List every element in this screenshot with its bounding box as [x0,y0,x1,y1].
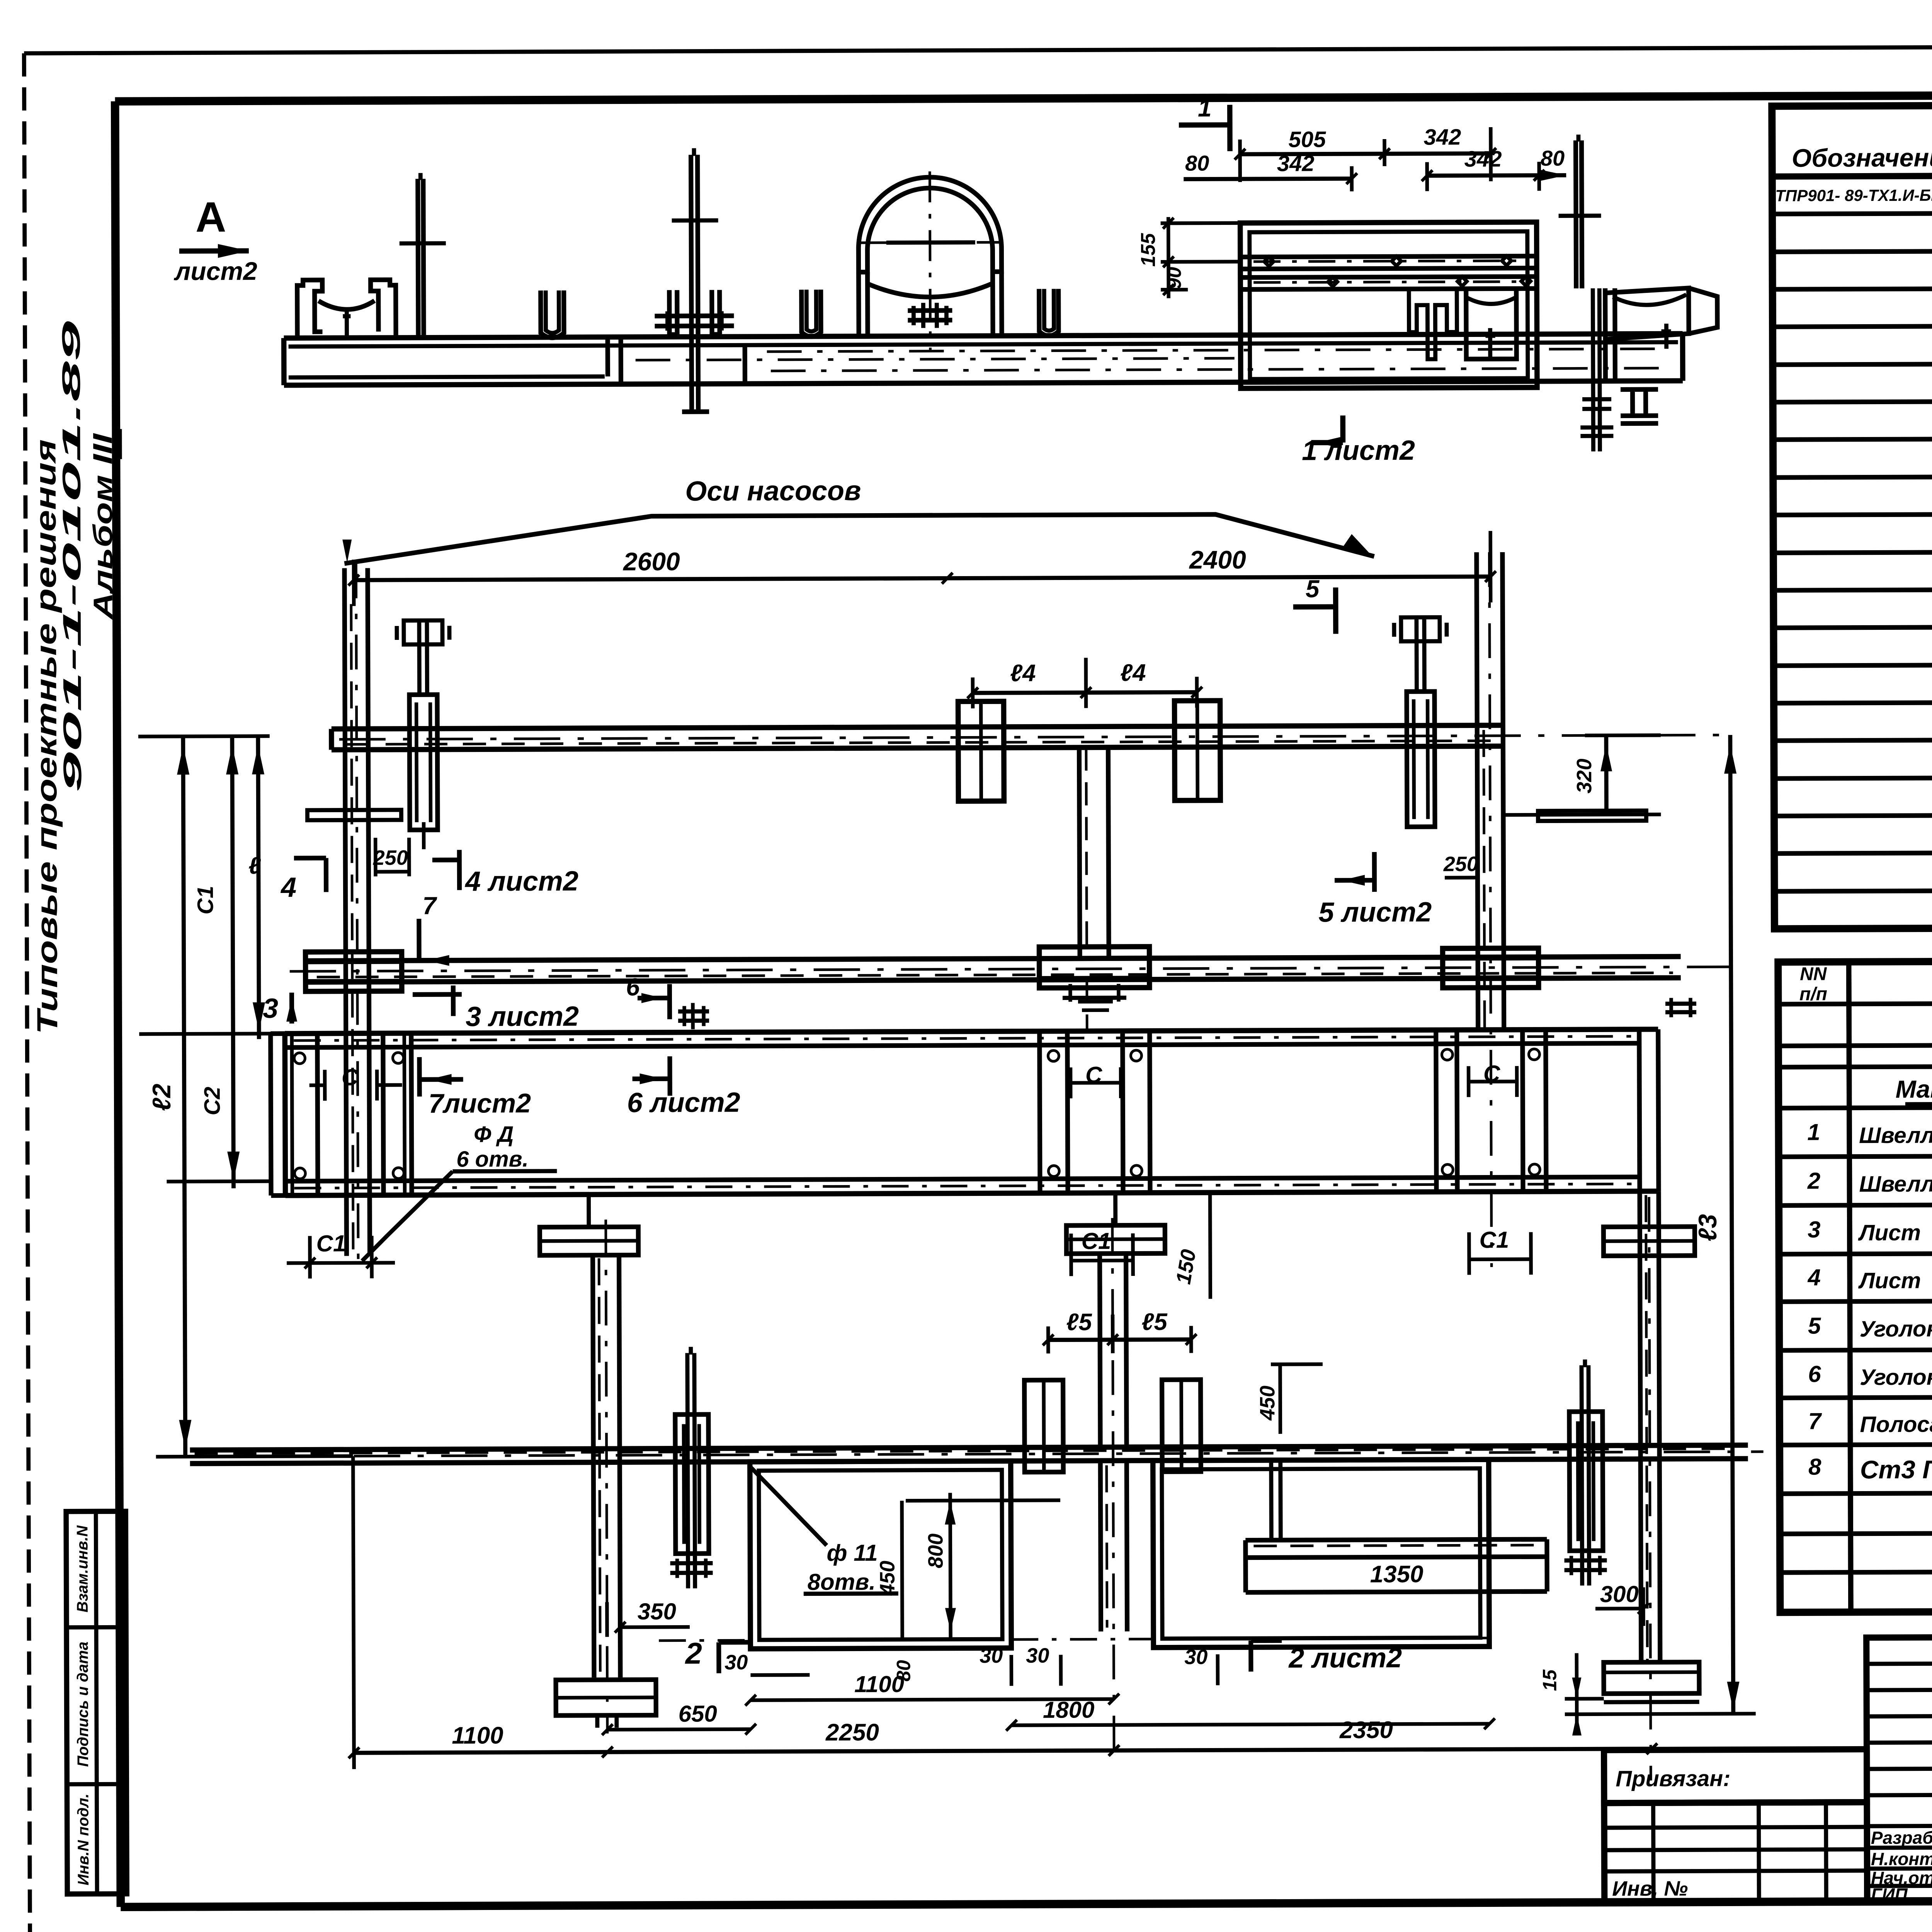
svg-text:4: 4 [280,872,296,903]
svg-text:8: 8 [1808,1454,1821,1480]
hanger blocks on bottom beam [1024,1380,1063,1472]
label 6 list2 [667,1056,672,1096]
svg-text:3 лист2: 3 лист2 [466,1001,579,1032]
right bolt hanger [1406,692,1435,827]
dim 90 155 [1161,221,1240,225]
svg-text:7: 7 [422,892,437,920]
svg-text:15: 15 [1539,1669,1560,1691]
right frame rectangle [1153,1459,1490,1648]
dim 2600/2400 [354,577,1491,580]
svg-text:1: 1 [1198,94,1212,122]
small bolt right outside [1665,1002,1696,1006]
right rod [1576,140,1576,288]
pipe clamp arch [858,177,1002,272]
beam dashed centerlines [636,358,1235,360]
dim 450 right rot [1278,1364,1282,1434]
right end box [1639,1029,1639,1191]
svg-text:Подпись и дата: Подпись и дата [74,1641,92,1767]
svg-text:Ст3 ГОСТ 380-71: Ст3 ГОСТ 380-71 [1860,1454,1932,1484]
svg-text:250: 250 [1443,852,1478,876]
svg-text:342: 342 [1464,146,1502,172]
svg-text:Уголок: Уголок [1860,1364,1932,1390]
bolt hardware right [1593,288,1593,451]
svg-text:С2: С2 [200,1087,225,1115]
svg-text:450: 450 [876,1561,899,1596]
svg-text:7: 7 [1808,1408,1822,1434]
right frame box (node 1) [1240,222,1537,388]
label 4 + 3 [324,858,328,892]
svg-text:2600: 2600 [622,547,680,576]
stud bolt 2 with clamp [691,155,692,384]
svg-text:2350: 2350 [1339,1717,1393,1743]
svg-text:А: А [196,193,226,241]
pump dimension table [1772,103,1932,929]
dim l5 l5 [1048,1340,1191,1340]
svg-text:342: 342 [1277,151,1315,176]
svg-text:лист2: лист2 [173,257,257,286]
svg-text:Инв. №: Инв. № [1612,1877,1688,1901]
svg-text:3: 3 [263,993,278,1024]
clamp base bolts [801,290,821,337]
I-beam below [1621,379,1658,383]
left post [344,568,347,1256]
svg-text:ℓ4: ℓ4 [1010,660,1036,687]
svg-text:6: 6 [626,973,640,1001]
label 6 mark [638,996,670,1000]
svg-text:Уголок: Уголок [1860,1316,1932,1342]
center stem [1100,1253,1100,1447]
svg-text:90: 90 [1163,267,1185,289]
svg-text:С1: С1 [1081,1228,1111,1254]
svg-text:Лист: Лист [1858,1220,1921,1246]
svg-text:30: 30 [724,1651,748,1674]
label 4 list2 [432,857,459,862]
svg-text:ℓ2: ℓ2 [147,1083,176,1111]
svg-text:ℓ3: ℓ3 [1693,1214,1722,1242]
svg-text:ф 11: ф 11 [827,1540,878,1566]
svg-text:80: 80 [1185,151,1209,175]
svg-text:Оси насосов: Оси насосов [685,475,861,507]
elevation main beam [284,334,1683,338]
U clamp 1 [541,291,564,338]
svg-text:ℓ5: ℓ5 [1141,1309,1168,1335]
l3 dim right [1730,735,1733,1712]
right stem [1640,1191,1641,1662]
svg-text:ТПР901- 89-ТХ1.И-БН.100.00: ТПР901- 89-ТХ1.И-БН.100.00 [1775,186,1932,205]
margin stamp table [66,1511,127,1894]
svg-text:1 лист2: 1 лист2 [1302,435,1415,466]
svg-text:155: 155 [1137,233,1160,267]
dim 1100 (frame) [751,1699,1114,1700]
label 3 list2 [413,992,462,997]
svg-text:Ф Д: Ф Д [474,1122,514,1147]
svg-text:7лист2: 7лист2 [429,1088,531,1119]
dim 1800 [1012,1724,1490,1725]
dim 80/342 row2 [1184,179,1352,179]
plan left dim lines [183,736,185,1457]
right bolt assembly bottom [1582,1365,1582,1585]
dim l4 l4 [973,692,1197,693]
svg-text:С1: С1 [1479,1227,1509,1253]
svg-text:901-1-0101.89: 901-1-0101.89 [56,321,87,793]
left pipe saddle [297,280,322,338]
dim 250 right [1445,876,1478,879]
chain dims 1100/2250/2350 [354,1749,1652,1753]
title block [1604,1749,1867,1803]
frame foot pads [540,1227,638,1255]
section 1 mark top [1179,122,1230,128]
svg-text:6 отв.: 6 отв. [456,1146,529,1172]
svg-text:С1: С1 [316,1230,346,1256]
svg-text:Обозначение: Обозначение [1792,143,1932,172]
left bolt assembly bottom [687,1353,688,1588]
left bolt hanger [409,695,437,830]
svg-text:Привязан:: Привязан: [1616,1766,1730,1791]
materials table [1778,959,1932,1612]
svg-text:Полоса: Полоса [1860,1412,1932,1437]
svg-text:ℓ: ℓ [248,852,261,879]
center drop column [1079,747,1080,958]
svg-text:30: 30 [980,1644,1003,1667]
svg-text:2250: 2250 [825,1719,879,1746]
left end box [285,1034,285,1196]
main frame [115,94,1932,102]
lower frame rails [285,1029,1658,1034]
channel 1350 [1245,1539,1547,1540]
svg-text:250: 250 [373,846,408,869]
center box [1039,1031,1040,1193]
svg-text:8отв.: 8отв. [808,1569,876,1595]
svg-text:2400: 2400 [1189,545,1246,574]
svg-text:350: 350 [638,1599,676,1624]
svg-text:Материалы: Материалы [1895,1075,1932,1103]
label 7 mark [417,919,421,961]
svg-text:Инв.N подл.: Инв.N подл. [75,1794,92,1886]
center nut cluster [1063,986,1126,990]
svg-text:1100: 1100 [854,1671,904,1697]
svg-text:п/п: п/п [1799,984,1827,1004]
svg-text:5: 5 [1808,1313,1821,1338]
svg-text:Швеллер: Швеллер [1859,1171,1932,1197]
label 5 list2 [1372,852,1377,892]
svg-text:Н.контр.: Н.контр. [1871,1849,1932,1869]
svg-text:1350: 1350 [1370,1561,1423,1588]
svg-text:С1: С1 [193,886,218,914]
outer sheet border [24,45,1932,53]
svg-text:4: 4 [1807,1264,1821,1290]
dim 450 800 rot [902,1501,902,1640]
right post [1477,725,1478,1030]
svg-text:320: 320 [1573,759,1596,793]
left stem [593,1255,594,1677]
second beam [306,957,1681,961]
svg-text:4 лист2: 4 лист2 [464,866,578,897]
svg-text:2 лист2: 2 лист2 [1288,1643,1402,1674]
label 2 list2 [1248,1641,1253,1672]
dim 505/342 [1240,153,1491,154]
dim 650 [607,1729,751,1730]
svg-text:800: 800 [924,1533,947,1568]
stud bolt 1 [418,179,418,338]
svg-text:1800: 1800 [1043,1697,1095,1723]
svg-text:450: 450 [1256,1386,1279,1421]
svg-text:30: 30 [1184,1645,1207,1668]
svg-text:342: 342 [1423,124,1461,150]
small bolt symbol mid [678,1009,709,1014]
top beam [332,725,1503,729]
svg-text:ℓ4: ℓ4 [1120,660,1146,686]
svg-text:505: 505 [1288,127,1326,152]
right cradle [1605,288,1615,381]
svg-text:Взам.инв.N: Взам.инв.N [74,1525,91,1612]
svg-text:ℓ5: ℓ5 [1066,1309,1092,1335]
label 7 list2 [417,1057,422,1097]
svg-text:Разраб.: Разраб. [1871,1827,1932,1848]
label 1 list2 [1340,415,1345,442]
svg-text:1: 1 [1807,1119,1820,1145]
svg-text:30: 30 [1026,1644,1049,1667]
svg-text:Альбом III: Альбом III [87,433,118,620]
svg-text:NN: NN [1800,964,1827,984]
svg-text:300: 300 [1600,1581,1639,1607]
bottom main beam [190,1445,1748,1450]
left frame rectangle [750,1461,1012,1649]
svg-text:5: 5 [1306,575,1320,602]
dim 320 right [1604,735,1608,815]
percha plates [307,810,401,820]
inner saddle in box [1409,289,1457,359]
svg-text:5 лист2: 5 лист2 [1318,897,1432,928]
svg-text:6 лист2: 6 лист2 [627,1087,740,1118]
svg-text:Лист: Лист [1858,1268,1921,1294]
crossheads [306,952,402,992]
svg-text:С: С [342,1064,359,1090]
svg-text:Швеллер: Швеллер [1859,1122,1932,1148]
svg-text:3: 3 [1808,1216,1821,1242]
section 5 mark [1293,604,1336,610]
svg-text:2: 2 [1807,1168,1821,1194]
hanger blocks on top beam [958,701,1004,801]
svg-text:6: 6 [1808,1361,1821,1387]
right box [1436,1030,1436,1192]
svg-text:ГИП: ГИП [1871,1884,1908,1905]
svg-text:650: 650 [679,1701,717,1726]
svg-text:1100: 1100 [452,1722,503,1749]
svg-text:2: 2 [684,1636,702,1670]
svg-text:80: 80 [1541,146,1565,170]
dim 250 left [376,870,409,874]
